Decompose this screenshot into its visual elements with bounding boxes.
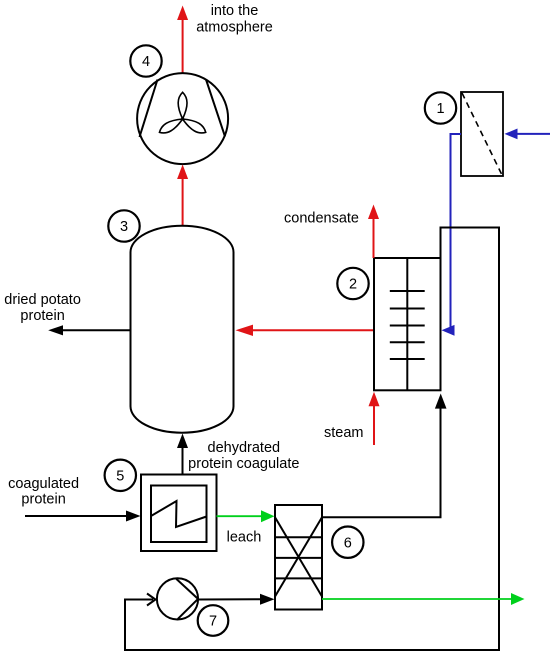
svg-text:3: 3 (120, 219, 128, 235)
wire: condensate out of hx (red arrow up) (368, 205, 379, 259)
svg-text:into the: into the (211, 3, 259, 19)
wire: dried product out of vessel (black arrow left) (48, 325, 130, 335)
wire: hot air hx to vessel (red arrow left) (236, 325, 375, 336)
svg-text:protein: protein (21, 492, 65, 508)
label circle 5 (105, 460, 136, 491)
svg-text:dehydrated: dehydrated (208, 440, 281, 456)
wire: loop hx top-right to right side down to bottom and pump inlet (125, 228, 499, 651)
wire: steam into hx (red arrow up) (369, 392, 380, 445)
label circle 7 (198, 605, 229, 636)
fan/blower 4 (137, 73, 228, 164)
svg-text:condensate: condensate (284, 211, 359, 227)
wire: filter 1 to hx (blue, down then arrow left into hx) (442, 134, 462, 336)
pump 7 (157, 578, 198, 619)
filter 1 (rect with dashed diagonal) (461, 92, 503, 176)
text: dried potato protein (4, 292, 81, 324)
text: into the atmosphere (196, 3, 273, 35)
svg-text:dried potato: dried potato (4, 292, 81, 308)
wire: green outlet from extractor 6 (green arrow right) (322, 593, 525, 605)
label circle 3 (108, 210, 139, 241)
svg-text:4: 4 (142, 54, 150, 70)
svg-text:protein coagulate: protein coagulate (188, 456, 299, 472)
wire: dryer 5 to vessel (black arrow up) (177, 434, 188, 475)
wire: leach from dryer 5 to extractor 6 (green arrow right) (217, 510, 275, 522)
vessel 3 (drying tank) (131, 226, 234, 433)
svg-text:5: 5 (116, 469, 124, 485)
svg-text:leach: leach (227, 530, 262, 546)
svg-text:atmosphere: atmosphere (196, 20, 273, 36)
wire: pump to extractor 6 (black arrow right) (198, 594, 275, 605)
svg-text:7: 7 (209, 614, 217, 630)
label circle 2 (337, 268, 368, 299)
svg-text:coagulated: coagulated (8, 476, 79, 492)
svg-text:6: 6 (344, 535, 352, 551)
label circle 1 (425, 92, 456, 123)
wire: extractor 6 top to hx bottom (black, up arrow) (322, 394, 447, 518)
wire: air inlet into filter (blue arrow left) (505, 129, 550, 140)
svg-text:protein: protein (20, 308, 64, 324)
text: coagulated protein (8, 476, 79, 508)
svg-text:1: 1 (436, 101, 444, 117)
wire: coagulated protein into dryer 5 (black arrow right) (25, 511, 141, 522)
wire: vessel top to fan (red, arrow up into fan) (177, 165, 188, 227)
pump inlet chevron arrowhead (147, 594, 156, 606)
label circle 4 (130, 45, 161, 76)
dryer 5 (square with saw line) (141, 475, 217, 552)
text: dehydrated protein coagulate (188, 440, 299, 472)
extractor 6 (275, 505, 322, 610)
svg-text:2: 2 (349, 277, 357, 293)
heat exchanger 2 (374, 258, 441, 390)
wire: exhaust line fan to atmosphere (red) (177, 6, 188, 74)
svg-text:steam: steam (324, 425, 364, 441)
label circle 6 (332, 527, 363, 558)
